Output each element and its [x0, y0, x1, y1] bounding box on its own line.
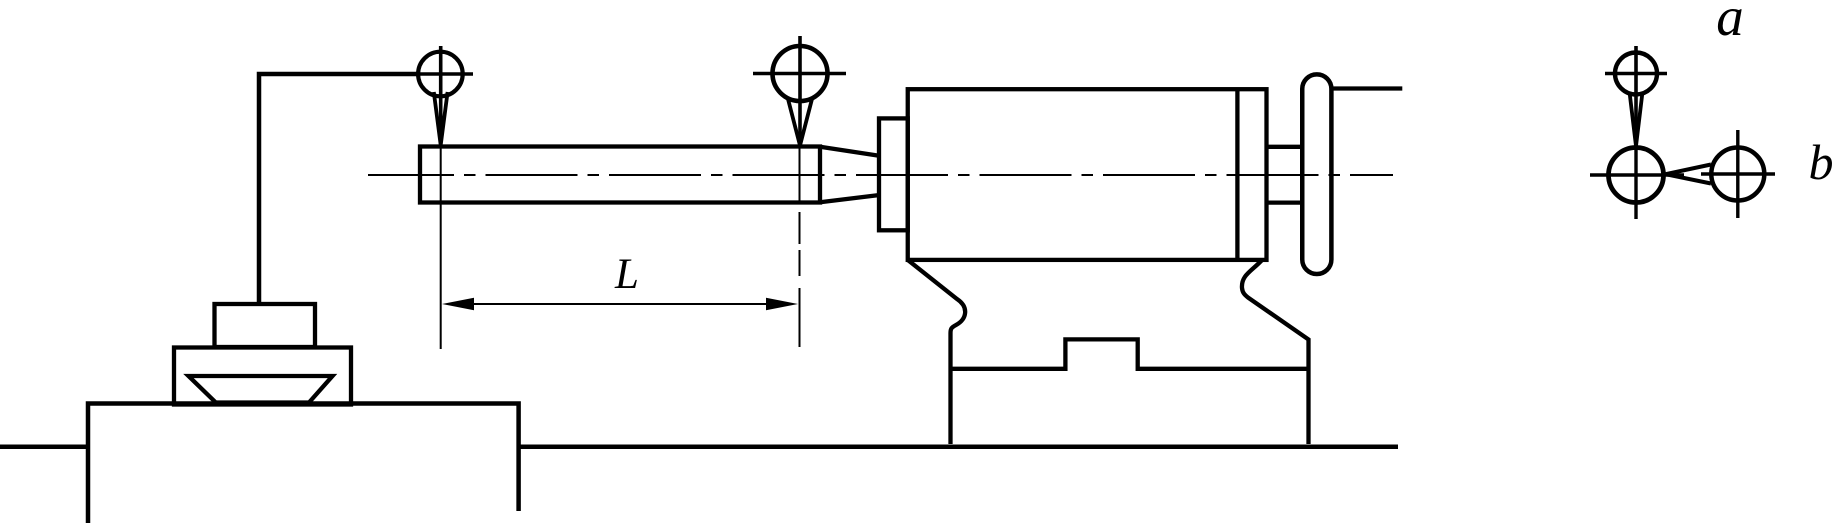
dial indicator 1 crosshair horizontal: [405, 72, 473, 75]
end view: indicator a stylus: [1630, 92, 1643, 146]
svg-text:a: a: [1716, 0, 1744, 47]
handwheel shaft step top: [1267, 145, 1303, 149]
end view: indicator b crosshair horizontal: [1701, 172, 1775, 175]
dial indicator 2 extension dash-dot below bar: [799, 212, 801, 347]
end view: indicator b stylus: [1666, 165, 1712, 184]
end view: indicator a body: [1615, 53, 1657, 95]
tailstock base top with clamp notch: [951, 339, 1309, 368]
centerline main axis: [368, 174, 1393, 176]
handwheel shaft step bottom: [1267, 200, 1303, 204]
end view: indicator b body: [1711, 148, 1764, 201]
test bar (mandrel): [420, 147, 820, 203]
svg-text:L: L: [614, 251, 639, 298]
dial indicator 2 crosshair horizontal: [753, 72, 846, 75]
dimension line L with arrowheads: [452, 303, 788, 305]
stand mid block: [174, 348, 351, 405]
tailstock quill: [879, 118, 908, 230]
end view: indicator a vertical: [1634, 46, 1638, 145]
tailstock base left profile: [908, 260, 965, 444]
bed line right: [519, 445, 1398, 450]
dial indicator 1 body: [418, 52, 463, 97]
tailstock body end cap line: [1235, 89, 1239, 260]
end view: mandrel section crosshair horizontal: [1590, 173, 1684, 176]
dial indicator 1 vertical / left extension line: [439, 46, 443, 144]
dial indicator 2 stylus: [788, 99, 812, 146]
svg-text:b: b: [1809, 134, 1833, 190]
end view: mandrel section crosshair vertical: [1634, 130, 1637, 219]
mandrel taper shank top: [820, 147, 878, 156]
mandrel taper shank bottom: [820, 195, 878, 202]
stand top block: [215, 304, 316, 347]
bed line left: [0, 445, 88, 450]
tailstock base right profile: [1242, 260, 1309, 444]
end view: indicator a crosshair horizontal: [1605, 72, 1667, 75]
end view: indicator b crosshair vertical: [1736, 130, 1739, 218]
indicator stand arm and post: [259, 74, 419, 305]
top right line: [1331, 86, 1402, 90]
stand wedge (trapezoid): [189, 376, 333, 403]
dial indicator 2 vertical line: [798, 36, 802, 145]
tailstock body: [908, 89, 1267, 260]
end view: mandrel section circle: [1609, 148, 1664, 203]
carriage block: [88, 404, 519, 523]
dial indicator 2 body: [773, 46, 828, 101]
dial indicator 1 stylus: [434, 92, 448, 145]
handwheel: [1302, 74, 1331, 274]
